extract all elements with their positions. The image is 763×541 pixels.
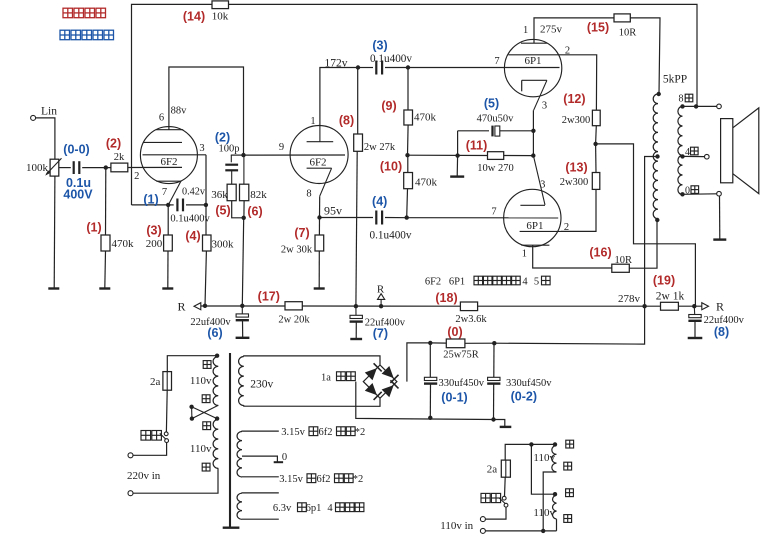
svg-text:6f2: 6f2	[319, 427, 333, 438]
wire 110v bottom rail	[485, 530, 556, 532]
tube V4 6P1 lower	[504, 156, 570, 260]
wire 230v top to bridge	[329, 356, 331, 358]
svg-text:3: 3	[542, 101, 547, 112]
wire V1 screen pin6 to top network box	[169, 67, 244, 155]
resistor (2) 2k grid stopper	[106, 136, 128, 172]
svg-text:400V: 400V	[63, 188, 93, 202]
svg-text:8: 8	[306, 189, 311, 200]
node lower grid coupling	[405, 215, 409, 219]
wire 0 tap to speaker	[683, 193, 717, 196]
label 1a bridge	[321, 372, 355, 384]
svg-text:10R: 10R	[614, 255, 632, 266]
primary winding 2 110v	[190, 419, 218, 471]
wire 10R to OPT primary top	[630, 18, 660, 94]
svg-text:(4): (4)	[372, 195, 387, 209]
winding 2 110v (second transformer)	[533, 489, 573, 523]
resistor (19) 2w 1k	[653, 273, 685, 310]
svg-text:0.1u400v: 0.1u400v	[370, 53, 412, 65]
wire Lin to volume pot	[36, 118, 55, 159]
wire upper screen pin2 to (12)	[562, 55, 597, 110]
wire lower plate pin1 to 10R	[533, 245, 612, 268]
svg-text:0: 0	[282, 452, 287, 463]
wire V2 cathode down to 95v node	[319, 196, 321, 217]
svg-text:(0-1): (0-1)	[441, 391, 467, 405]
svg-text:2w300: 2w300	[560, 177, 589, 188]
svg-text:330uf450v: 330uf450v	[506, 378, 552, 389]
svg-text:88v: 88v	[171, 106, 188, 117]
bridge rectifier 1a	[363, 363, 398, 400]
capacitor (8) 22uf400v	[688, 306, 744, 339]
wire 4 ohm tap	[683, 155, 705, 157]
resistor (5) 36k	[211, 184, 243, 218]
svg-text:R: R	[716, 299, 724, 313]
svg-text:230v: 230v	[250, 378, 273, 390]
svg-text:9: 9	[279, 142, 284, 153]
wire lower screen pin2 to (13)	[561, 189, 596, 231]
svg-text:2k: 2k	[114, 152, 125, 163]
resistor (16) 10R plate stopper	[589, 246, 632, 273]
svg-text:8: 8	[679, 94, 684, 105]
wire 110v transformer top rail	[505, 444, 555, 460]
svg-text:(6): (6)	[207, 326, 222, 340]
red header text jeohang-beonho (resistor numbers)	[63, 8, 106, 18]
wire screen junction to R rail right	[596, 144, 696, 306]
svg-text:(12): (12)	[563, 92, 585, 106]
winding 1 110v (second transformer)	[533, 440, 573, 472]
resistor (4) 300k plate load	[185, 229, 234, 306]
ground at 470k	[99, 287, 110, 289]
svg-text:6: 6	[159, 113, 164, 124]
node 36k 82k junction	[242, 216, 246, 220]
wire to lower 6P1 grid pin7	[407, 217, 559, 219]
wire R rail left arrow	[194, 303, 201, 310]
svg-text:6p1: 6p1	[306, 503, 322, 514]
input terminal Lin	[31, 106, 58, 121]
resistor (8) 2w 27k	[339, 68, 396, 307]
svg-text:2w 20k: 2w 20k	[278, 315, 310, 326]
wire winding2 bottom to rail	[556, 519, 558, 531]
svg-text:(0): (0)	[447, 325, 462, 339]
tube V1 6F2 first stage	[134, 106, 206, 205]
node upper grid coupling	[406, 65, 410, 69]
svg-text:6F2: 6F2	[309, 157, 326, 169]
svg-text:(0-2): (0-2)	[511, 390, 537, 404]
terminal 110v in lower	[480, 528, 485, 533]
arrow R branch up	[377, 284, 385, 307]
svg-text:220v in: 220v in	[127, 470, 161, 482]
svg-text:(3): (3)	[372, 39, 387, 53]
terminal 110v in upper	[480, 517, 485, 522]
tube V2 6F2 driver	[290, 116, 348, 200]
svg-text:(9): (9)	[381, 99, 396, 113]
wire 8 ohm tap to speaker	[683, 105, 717, 107]
svg-text:2w3.6k: 2w3.6k	[455, 314, 487, 325]
svg-text:(8): (8)	[339, 114, 354, 128]
capacitor (1) 0.1u400v cathode-plate	[143, 192, 210, 224]
svg-text:278v: 278v	[618, 293, 641, 305]
wire R rail right arrow	[702, 303, 709, 310]
svg-text:(8): (8)	[714, 325, 729, 339]
node grid V1	[104, 165, 108, 169]
svg-text:(4): (4)	[185, 229, 200, 243]
blue header text condenser-beonho (capacitor numbers)	[60, 30, 114, 40]
node cap 0-1	[428, 341, 432, 345]
wire bias line	[408, 154, 488, 156]
svg-text:300k: 300k	[212, 239, 235, 251]
wire junction to V2 grid pin9	[244, 154, 346, 156]
resistor (9) 470k	[381, 68, 436, 156]
svg-text:4: 4	[327, 503, 333, 514]
svg-text:(1): (1)	[86, 221, 101, 235]
svg-text:1a: 1a	[321, 373, 331, 384]
svg-text:4: 4	[522, 276, 528, 287]
wire cap5 node to ground	[456, 156, 458, 177]
svg-text:10w 270: 10w 270	[477, 163, 513, 174]
svg-text:7: 7	[494, 56, 499, 67]
resistor (3) 200 cathode	[146, 205, 173, 289]
svg-text:3: 3	[540, 180, 545, 191]
svg-text:7: 7	[491, 207, 496, 218]
ground at 200	[162, 287, 173, 289]
ground at cap7	[350, 338, 362, 340]
svg-text:(10): (10)	[380, 159, 402, 173]
wire cap to grid node	[82, 167, 111, 169]
potentiometer 100k	[26, 158, 62, 176]
resistor (17) 2w 20k	[258, 290, 311, 326]
svg-text:6P1: 6P1	[524, 55, 541, 67]
ground at speaker	[713, 238, 726, 240]
svg-text:10k: 10k	[212, 11, 229, 23]
note filament pins text	[425, 276, 550, 287]
wire cathode bus	[532, 110, 534, 155]
secondary 6.3v winding	[237, 493, 364, 519]
svg-text:(16): (16)	[589, 246, 611, 260]
fuse 2a	[150, 372, 171, 391]
svg-text:3.15v: 3.15v	[281, 427, 305, 438]
svg-text:(13): (13)	[565, 160, 587, 174]
switch on-off	[141, 431, 169, 443]
svg-text:(2): (2)	[215, 131, 230, 145]
ground PSU	[500, 426, 512, 428]
svg-text:(14): (14)	[183, 10, 205, 24]
wire 10R to OPT primary bottom	[629, 220, 657, 268]
resistor (15) 10R plate stopper	[587, 14, 636, 39]
svg-text:22uf400v: 22uf400v	[365, 317, 406, 328]
svg-text:110v: 110v	[190, 443, 212, 455]
label 0 black tap	[685, 186, 699, 197]
svg-text:R: R	[177, 300, 185, 314]
node screen supply junction	[593, 142, 597, 146]
wire primary center tap B+ 278v	[645, 157, 658, 307]
svg-text:470k: 470k	[112, 238, 135, 250]
node cap5 ground branch	[455, 153, 459, 157]
svg-text:2w 1k: 2w 1k	[656, 290, 685, 302]
wire B+ to 278v rail	[494, 306, 644, 344]
svg-text:82k: 82k	[250, 189, 267, 201]
resistor (14) 10k	[183, 1, 229, 24]
svg-text:(6): (6)	[247, 205, 262, 219]
svg-text:0.1u400v: 0.1u400v	[170, 214, 210, 225]
svg-text:22uf400v: 22uf400v	[704, 315, 745, 326]
wire 2k to V1 grid	[128, 166, 182, 168]
svg-text:3: 3	[199, 143, 204, 154]
svg-text:470u50v: 470u50v	[477, 113, 515, 124]
wire PSU ground rail	[356, 382, 505, 427]
svg-text:(11): (11)	[466, 139, 488, 153]
svg-text:2w300: 2w300	[562, 115, 591, 126]
svg-text:110v in: 110v in	[440, 520, 473, 532]
resistor (0) 25w75R	[430, 325, 494, 361]
terminal 220v in upper	[128, 453, 133, 458]
wire NFB to cathode	[132, 204, 169, 206]
svg-text:6f2: 6f2	[317, 474, 331, 485]
wire R rail	[201, 305, 285, 307]
svg-text:6F2: 6F2	[160, 156, 177, 168]
svg-text:(2): (2)	[106, 136, 121, 150]
node bias line left	[405, 153, 409, 157]
wire switch to terminal	[133, 443, 166, 456]
svg-text:95v: 95v	[324, 204, 342, 218]
resistor (1) 470k grid leak	[86, 168, 134, 289]
svg-text:0.42v: 0.42v	[182, 186, 206, 197]
resistor (7) 2w 30k cathode	[281, 218, 324, 289]
wire B+ rail from bridge	[407, 343, 430, 382]
svg-text:(5): (5)	[484, 97, 499, 111]
resistor (13) 2w300 screen	[560, 144, 600, 190]
wire winding2 top parallel link	[531, 444, 555, 494]
wire pot wiper to coupling cap	[59, 167, 71, 169]
node pin9 line junction	[241, 153, 245, 157]
capacitor (3) 0.1u400v coupling upper	[358, 39, 412, 75]
wire V2 plate to 172v node	[320, 68, 358, 126]
ground at cap6	[236, 337, 250, 339]
svg-text:100p: 100p	[219, 144, 240, 155]
primary winding 1 110v	[190, 354, 219, 406]
node cap 0-2	[492, 341, 496, 345]
svg-text:(7): (7)	[373, 327, 388, 341]
wire NFB loop top rail	[132, 4, 213, 205]
terminal 220v in lower	[128, 491, 133, 496]
wire junction down to R rail	[242, 218, 243, 306]
wire speaker return to ground	[719, 196, 721, 239]
transformer core	[223, 353, 240, 528]
svg-text:6.3v: 6.3v	[273, 503, 292, 514]
secondary 230v winding	[239, 356, 380, 406]
svg-text:5: 5	[534, 276, 539, 287]
fuse 2a (110v)	[487, 460, 511, 477]
resistor (18) 2w3.6k	[435, 291, 487, 325]
ground at 30k	[314, 287, 325, 289]
svg-text:172v: 172v	[325, 57, 348, 69]
svg-text:6P1: 6P1	[449, 276, 465, 287]
output transformer 5kPP primary	[653, 74, 687, 223]
svg-text:(7): (7)	[294, 226, 309, 240]
svg-text:110v: 110v	[533, 452, 555, 464]
svg-text:1: 1	[523, 25, 528, 36]
tube V3 6P1 upper	[504, 25, 570, 112]
svg-text:6F2: 6F2	[425, 276, 441, 287]
svg-text:R: R	[377, 284, 385, 296]
svg-text:(1): (1)	[143, 192, 158, 206]
resistor (10) 470k	[380, 155, 438, 217]
svg-text:(0-0): (0-0)	[63, 143, 89, 157]
wire V1 plate pin3 down	[205, 155, 207, 235]
node 172v	[356, 65, 360, 69]
svg-text:2w 30k: 2w 30k	[281, 245, 313, 256]
output transformer secondary	[678, 104, 685, 196]
svg-text:(5): (5)	[215, 204, 230, 218]
speaker	[721, 108, 759, 194]
svg-text:275v: 275v	[540, 24, 563, 36]
svg-text:(3): (3)	[146, 224, 161, 238]
label 4 yellow tap	[685, 147, 698, 158]
node V1 plate / cap junction	[204, 203, 208, 207]
resistor (6) 82k	[240, 155, 268, 218]
capacitor (2) 100p	[215, 131, 244, 185]
svg-text:10R: 10R	[619, 28, 637, 39]
series crossover link	[189, 405, 219, 421]
svg-text:25w75R: 25w75R	[443, 350, 479, 361]
svg-text:(19): (19)	[653, 273, 675, 287]
resistor (12) 2w300 screen	[562, 92, 600, 144]
wire upper plate to 10R	[534, 18, 614, 43]
svg-text:110v: 110v	[190, 375, 212, 387]
svg-text:0.1u400v: 0.1u400v	[370, 230, 412, 242]
wire winding1 bottom to rail	[543, 472, 556, 531]
wire fuse to switch	[165, 390, 168, 431]
svg-text:(18): (18)	[435, 291, 457, 305]
svg-text:6P1: 6P1	[526, 220, 543, 232]
svg-text:2: 2	[134, 171, 139, 182]
secondary 3.15v windings	[237, 427, 365, 485]
capacitor (0-1) 330uf450v	[424, 343, 485, 418]
switch (110v)	[481, 477, 508, 507]
ground at cathode network	[450, 175, 464, 177]
svg-text:36k: 36k	[211, 189, 228, 201]
ground at pot	[48, 287, 59, 289]
node 6P1 cathodes	[531, 129, 535, 133]
node rail junctions	[203, 304, 207, 308]
capacitor (4) 0.1u400v coupling lower	[320, 195, 412, 242]
wire to upper 6P1 grid pin7	[408, 67, 560, 69]
wire switch to terminal (110v)	[485, 507, 506, 519]
svg-text:22uf400v: 22uf400v	[190, 317, 231, 328]
node V1 cathode	[166, 203, 170, 207]
svg-text:110v: 110v	[533, 507, 555, 519]
svg-text:330uf450v: 330uf450v	[439, 378, 485, 389]
svg-text:470k: 470k	[414, 112, 437, 124]
ground at cap8	[688, 337, 703, 339]
svg-text:7: 7	[162, 187, 167, 198]
svg-text:3.15v: 3.15v	[279, 474, 303, 485]
svg-text:5kPP: 5kPP	[663, 74, 687, 86]
svg-text:1: 1	[310, 116, 315, 127]
capacitor (5) 470u50v cathode bypass	[458, 97, 534, 156]
wire lower terminal to winding2	[133, 468, 218, 493]
svg-text:470k: 470k	[415, 177, 438, 189]
node 95v	[317, 215, 321, 219]
svg-text:200: 200	[146, 238, 163, 250]
label 8 green tap	[679, 94, 693, 105]
capacitor (0-0) 0.1u 400V	[63, 143, 93, 202]
svg-text:2a: 2a	[487, 464, 498, 476]
svg-text:(15): (15)	[587, 21, 609, 35]
svg-text:*2: *2	[355, 427, 366, 438]
svg-text:1: 1	[522, 249, 527, 260]
svg-text:2w 27k: 2w 27k	[364, 142, 396, 153]
svg-text:*2: *2	[353, 474, 364, 485]
wire pot to ground	[53, 176, 56, 288]
svg-text:(17): (17)	[258, 290, 280, 304]
resistor (11) 10w 270 cathode	[466, 139, 534, 174]
svg-text:Lin: Lin	[41, 106, 57, 118]
wire mains to fuse	[167, 356, 217, 372]
svg-text:100k: 100k	[26, 162, 49, 174]
capacitor (0-2) 330uf450v	[487, 343, 552, 419]
capacitor (6) 22uf400v	[190, 306, 249, 340]
svg-text:2a: 2a	[150, 376, 161, 388]
capacitor (7) 22uf400v	[350, 306, 406, 340]
